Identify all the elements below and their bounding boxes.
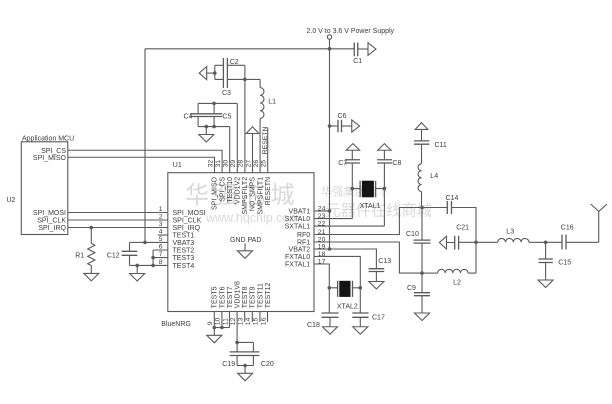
svg-text:RF0: RF0 xyxy=(297,232,310,239)
svg-text:C21: C21 xyxy=(456,224,469,231)
svg-text:26: 26 xyxy=(253,160,260,168)
ground below C12 xyxy=(130,265,145,281)
svg-text:FXTAL0: FXTAL0 xyxy=(285,254,310,261)
svg-text:6: 6 xyxy=(159,244,163,251)
svg-text:XTAL1: XTAL1 xyxy=(360,203,381,210)
svg-text:Application MCU: Application MCU xyxy=(22,136,74,143)
capacitor C7 xyxy=(338,150,360,167)
svg-text:TEST7: TEST7 xyxy=(227,286,234,308)
Application MCU U2 box xyxy=(21,142,68,235)
svg-text:25: 25 xyxy=(261,160,268,168)
svg-text:27: 27 xyxy=(245,160,252,168)
junction pin 10 xyxy=(220,326,224,330)
junction node D xyxy=(544,241,548,245)
svg-text:BlueNRG: BlueNRG xyxy=(161,321,191,328)
wire test pins ground link xyxy=(214,327,229,329)
svg-text:C12: C12 xyxy=(107,253,120,260)
wire VBAT2 pin 19 to rail xyxy=(314,248,330,250)
svg-text:TEST2: TEST2 xyxy=(173,248,195,255)
inductor L4 xyxy=(418,144,438,207)
svg-text:C8: C8 xyxy=(392,160,401,167)
junction node A xyxy=(420,206,424,210)
ground below R1 xyxy=(84,273,99,281)
junction VBAT2 xyxy=(328,247,332,251)
node VDD power terminal xyxy=(327,35,331,39)
svg-text:FXTAL1: FXTAL1 xyxy=(285,262,310,269)
svg-text:SPI_MISO: SPI_MISO xyxy=(33,155,67,162)
capacitor C13 xyxy=(369,258,392,271)
svg-text:C2: C2 xyxy=(230,59,239,66)
svg-text:2.0 V to 3.6 V Power Supply: 2.0 V to 3.6 V Power Supply xyxy=(307,28,395,35)
svg-text:SPI_CS: SPI_CS xyxy=(41,148,66,155)
capacitor C17 xyxy=(352,288,385,322)
wire VDD1V2 to pin 29 xyxy=(236,103,238,172)
svg-text:L1: L1 xyxy=(268,99,276,106)
capacitor C6 xyxy=(328,113,352,132)
svg-text:C19: C19 xyxy=(222,361,235,368)
svg-text:C14: C14 xyxy=(446,195,459,202)
ground below C15 xyxy=(538,263,553,288)
capacitor C10 xyxy=(406,208,431,244)
op IC U1 BlueNRG box xyxy=(168,173,314,312)
junction C19 top xyxy=(235,341,239,345)
inductor L1 xyxy=(260,79,276,172)
svg-text:TEST9: TEST9 xyxy=(250,286,257,308)
svg-text:C6: C6 xyxy=(338,113,347,120)
svg-text:RF1: RF1 xyxy=(297,240,310,247)
svg-text:SXTAL1: SXTAL1 xyxy=(285,224,311,231)
svg-text:TEST1: TEST1 xyxy=(173,233,195,240)
svg-text:TEST3: TEST3 xyxy=(173,255,195,262)
svg-text:7: 7 xyxy=(159,251,163,258)
junction XTAL1 right xyxy=(383,187,387,191)
wire RF0 pin 21 to node A xyxy=(314,208,422,235)
crystal XTAL1 xyxy=(352,181,384,211)
junction node B xyxy=(420,271,424,275)
svg-text:C15: C15 xyxy=(558,260,571,267)
svg-text:C10: C10 xyxy=(406,231,419,238)
svg-text:L4: L4 xyxy=(430,173,438,180)
ground below C13 xyxy=(369,272,384,290)
wire TEST7 pin 11 stub xyxy=(229,312,231,328)
capacitor C11 xyxy=(414,129,447,149)
wire TEST5 pin 9 stub xyxy=(213,312,215,328)
wire power terminal stub xyxy=(329,39,331,49)
wire pins 6-7 link to C12 ground net xyxy=(151,250,168,267)
junction pin 9 xyxy=(213,326,217,330)
wire RF1 pin 20 to node B xyxy=(314,242,422,273)
capacitor C2 and C3 block xyxy=(207,58,260,97)
svg-text:C7: C7 xyxy=(338,160,347,167)
svg-text:C9: C9 xyxy=(407,285,416,292)
junction XTAL2 left xyxy=(328,286,332,290)
svg-text:XTAL2: XTAL2 xyxy=(337,303,358,310)
wire TEST11 pin 15 stub xyxy=(259,312,261,323)
capacitor C9 xyxy=(407,243,430,296)
wire TEST10 to pin 30 xyxy=(229,127,231,173)
svg-text:TEST8: TEST8 xyxy=(242,286,249,308)
inductor L3 xyxy=(476,228,562,242)
svg-text:TEST5: TEST5 xyxy=(212,286,219,308)
svg-text:SMPSFILT1: SMPSFILT1 xyxy=(257,177,264,215)
svg-text:32: 32 xyxy=(207,160,214,168)
junction node C xyxy=(474,241,478,245)
junction power rail xyxy=(328,47,332,51)
power arrow right of C6 xyxy=(352,120,360,132)
capacitor C21 xyxy=(447,224,477,249)
svg-text:TEST10: TEST10 xyxy=(227,177,234,203)
svg-text:30: 30 xyxy=(223,160,230,168)
svg-text:SPI_CLK: SPI_CLK xyxy=(173,218,202,225)
wire VBAT1 pin 24 to rail xyxy=(314,210,330,212)
capacitor C1 xyxy=(353,43,368,66)
svg-text:VBAT1: VBAT1 xyxy=(289,209,311,216)
wire VDD1V8 pin 12 to C19/C20 xyxy=(236,312,238,343)
wire VDD rail vertical to VBAT1/VBAT2 xyxy=(329,49,331,249)
wire SMPSFILT2 to pin 28 xyxy=(244,65,246,172)
svg-text:12: 12 xyxy=(230,317,237,325)
svg-text:SPI_IRQ: SPI_IRQ xyxy=(38,225,66,232)
svg-text:L3: L3 xyxy=(506,228,514,235)
svg-text:C11: C11 xyxy=(435,142,447,149)
svg-text:11: 11 xyxy=(222,318,229,325)
power arrow above C7 xyxy=(346,144,359,151)
capacitor C18 xyxy=(307,288,339,329)
svg-text:C16: C16 xyxy=(561,225,574,232)
svg-text:TEST4: TEST4 xyxy=(173,263,195,270)
svg-text:VBAT3: VBAT3 xyxy=(173,240,195,247)
junction VBAT1 xyxy=(328,209,332,213)
wire left supply rail down to VBAT3 xyxy=(145,49,168,243)
svg-text:16: 16 xyxy=(260,317,267,325)
svg-text:VBAT2: VBAT2 xyxy=(289,247,311,254)
svg-text:C1: C1 xyxy=(353,58,362,65)
wire TEST6 pin 10 stub xyxy=(221,312,223,328)
svg-text:C13: C13 xyxy=(378,258,391,265)
wire RESETN net xyxy=(267,128,269,173)
capacitor C15 xyxy=(539,242,572,266)
svg-text:10: 10 xyxy=(215,317,222,325)
svg-text:SXTAL0: SXTAL0 xyxy=(285,216,311,223)
junction XTAL2 right xyxy=(359,286,363,290)
svg-text:C20: C20 xyxy=(261,361,274,368)
svg-text:U2: U2 xyxy=(7,197,16,204)
wire SPI_CLK net xyxy=(68,219,168,221)
wire SPI_MISO net xyxy=(68,157,215,172)
svg-text:NO_SMPS: NO_SMPS xyxy=(250,177,257,212)
svg-text:3: 3 xyxy=(159,221,163,228)
ground below C19/C20 xyxy=(238,366,253,381)
svg-text:GND PAD: GND PAD xyxy=(230,237,261,244)
wire FXTAL1 pin 17 to XTAL2 xyxy=(314,264,329,288)
svg-text:C17: C17 xyxy=(372,314,385,321)
svg-text:SPI_MOSI: SPI_MOSI xyxy=(173,210,206,217)
power arrow above C11 xyxy=(415,123,428,130)
capacitor C4 and C5 block xyxy=(184,102,238,129)
wire SPI_IRQ net xyxy=(68,227,168,229)
capacitor C12 xyxy=(107,241,168,268)
svg-text:TEST6: TEST6 xyxy=(219,286,226,308)
svg-text:29: 29 xyxy=(230,160,237,168)
power arrow left of C2/C3 xyxy=(199,67,207,80)
junction XTAL1 left xyxy=(351,187,355,191)
capacitor C8 xyxy=(377,150,401,167)
svg-text:TEST11: TEST11 xyxy=(257,283,264,308)
power arrow above C8 xyxy=(378,144,391,151)
svg-text:SPI_MISO: SPI_MISO xyxy=(212,176,219,210)
svg-text:1: 1 xyxy=(159,206,163,213)
crystal XTAL2 xyxy=(329,281,360,311)
svg-text:U1: U1 xyxy=(173,162,182,169)
svg-text:2: 2 xyxy=(159,214,163,221)
wire SPI_MOSI net xyxy=(68,212,168,214)
svg-text:4: 4 xyxy=(159,229,163,236)
capacitor C16 xyxy=(561,225,599,250)
power arrow NO_SMPS pin 27 xyxy=(246,127,259,173)
capacitor C14 xyxy=(422,195,476,242)
svg-text:华强集团旗下: 华强集团旗下 xyxy=(321,185,389,199)
ground GND PAD xyxy=(238,243,253,258)
wire top supply rail xyxy=(145,48,354,50)
svg-text:31: 31 xyxy=(215,160,222,168)
svg-text:SMPSFILT2: SMPSFILT2 xyxy=(242,177,249,215)
power arrow right of C1 xyxy=(368,43,376,56)
svg-text:SPI_CS: SPI_CS xyxy=(219,177,226,202)
wire C7 to SXTAL0 pin 23 xyxy=(314,163,352,219)
svg-text:VDD1V2: VDD1V2 xyxy=(235,177,242,204)
svg-text:TEST12: TEST12 xyxy=(265,283,272,309)
wire TEST9 pin 14 stub xyxy=(251,312,253,323)
svg-text:C3: C3 xyxy=(222,90,231,97)
svg-text:9: 9 xyxy=(207,321,214,325)
svg-text:14: 14 xyxy=(245,317,252,325)
antenna xyxy=(591,204,607,242)
ground below C4/C5 xyxy=(199,127,214,142)
svg-text:5: 5 xyxy=(159,236,163,243)
svg-text:SPI_MOSI: SPI_MOSI xyxy=(33,210,66,217)
svg-text:15: 15 xyxy=(253,317,260,325)
power arrow left of C21 xyxy=(439,236,446,249)
svg-text:L2: L2 xyxy=(453,280,461,287)
ground below test pins xyxy=(207,328,222,343)
svg-text:SPI_CLK: SPI_CLK xyxy=(37,218,66,225)
svg-text:13: 13 xyxy=(238,317,245,325)
inductor L2 xyxy=(422,242,476,286)
svg-text:C18: C18 xyxy=(307,322,320,329)
svg-text:8: 8 xyxy=(159,259,163,266)
ground below C9 xyxy=(415,296,430,321)
ground below C17 xyxy=(353,317,368,334)
svg-text:28: 28 xyxy=(238,160,245,168)
resistor R1 xyxy=(75,226,95,274)
svg-text:RESETN: RESETN xyxy=(262,127,269,155)
wire VBAT2 to C13 xyxy=(330,249,377,269)
wire TEST8 pin 13 stub xyxy=(244,312,246,323)
ground below C18 xyxy=(323,317,338,334)
wire TEST12 pin 16 stub xyxy=(267,312,269,323)
svg-text:R1: R1 xyxy=(75,252,84,259)
svg-text:VDD1V8: VDD1V8 xyxy=(235,281,242,308)
svg-text:SPI_IRQ: SPI_IRQ xyxy=(173,225,201,232)
capacitor C19 and C20 block xyxy=(222,342,274,368)
svg-text:C4: C4 xyxy=(184,113,193,120)
wire TEST1 stub pin 4 xyxy=(158,234,168,236)
wire C8 to SXTAL1 pin 22 xyxy=(314,163,384,226)
wire SPI_CS net xyxy=(68,150,222,172)
svg-text:RESETN: RESETN xyxy=(265,177,272,205)
svg-text:C5: C5 xyxy=(222,113,231,120)
wire FXTAL0 pin 18 to XTAL2 xyxy=(314,256,360,287)
